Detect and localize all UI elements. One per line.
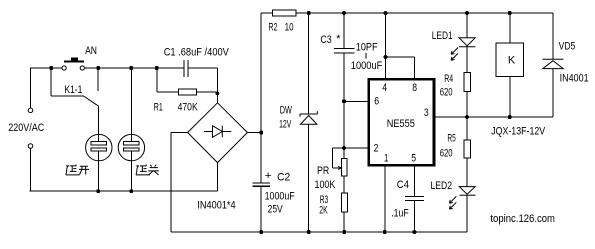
wire DC minus drop bbox=[170, 133, 172, 233]
svg-text:R2: R2 bbox=[269, 22, 278, 34]
node AN left bbox=[49, 66, 53, 70]
bridge rectifier IN4001*4 bbox=[188, 103, 248, 163]
node C3 top bbox=[342, 11, 346, 15]
node DW bottom bbox=[307, 230, 311, 234]
node lamp2 top bbox=[129, 66, 133, 70]
svg-text:R4: R4 bbox=[444, 73, 453, 85]
relay contact K1-1 bbox=[50, 68, 52, 96]
svg-text:VD5: VD5 bbox=[559, 40, 576, 52]
wire lamp1 bottom bbox=[97, 151, 99, 191]
svg-text:LED2: LED2 bbox=[431, 180, 453, 192]
node pin6 bbox=[342, 99, 346, 103]
svg-text:620: 620 bbox=[440, 87, 453, 99]
svg-text:LED1: LED1 bbox=[432, 30, 453, 42]
svg-text:C3: C3 bbox=[320, 34, 331, 46]
node pin3-R4 bbox=[465, 115, 469, 119]
svg-text:1000uF: 1000uF bbox=[351, 60, 383, 72]
node LED1 top bbox=[465, 11, 469, 15]
svg-text:1: 1 bbox=[384, 152, 388, 164]
svg-text:K: K bbox=[508, 55, 516, 67]
resistor R4 bbox=[464, 73, 471, 92]
wire C1 corner down bbox=[216, 68, 218, 103]
zener diode DW bbox=[300, 111, 317, 124]
relay coil K bbox=[509, 13, 511, 43]
node bridge top bbox=[215, 91, 219, 95]
wire pin5 drop bbox=[413, 167, 415, 197]
svg-text:IN4001: IN4001 bbox=[560, 73, 589, 85]
node R3 bottom bbox=[342, 230, 346, 234]
svg-text:DW: DW bbox=[280, 105, 293, 117]
capacitor C1 bbox=[183, 60, 185, 77]
svg-text:1000uF: 1000uF bbox=[265, 190, 295, 202]
svg-text:6: 6 bbox=[374, 96, 379, 108]
node C2 top bbox=[259, 131, 263, 135]
diode VD5 IN4001 bbox=[552, 13, 554, 59]
svg-text:620: 620 bbox=[440, 147, 453, 159]
node lamp1 rail bbox=[96, 189, 100, 193]
node C2 bottom bbox=[259, 230, 263, 234]
IC U1 NE555 body bbox=[369, 79, 434, 165]
wire bridge right vertex bbox=[247, 132, 261, 134]
wire pin4 column bbox=[385, 13, 387, 78]
wire pin1 ground bbox=[384, 167, 386, 233]
node pin4-8 tie bbox=[384, 55, 388, 59]
node pin3-K bbox=[508, 115, 512, 119]
svg-text:+: + bbox=[265, 170, 272, 182]
wire lamp2 bottom bbox=[130, 151, 132, 191]
wire pin2 bbox=[344, 147, 368, 149]
svg-text:K1-1: K1-1 bbox=[64, 84, 82, 96]
node lamp2 rail bbox=[129, 189, 133, 193]
wire bridge left vertex bbox=[171, 132, 187, 134]
LED1 bbox=[466, 13, 468, 38]
svg-text:C2: C2 bbox=[277, 172, 290, 184]
svg-text:10: 10 bbox=[285, 22, 294, 34]
wire pin8 tie bbox=[386, 56, 415, 58]
svg-text:100K: 100K bbox=[315, 179, 336, 191]
node DW top bbox=[307, 11, 311, 15]
terminal 220V top bbox=[28, 108, 33, 113]
wire pin3 output row bbox=[435, 116, 553, 118]
node C4 bottom bbox=[412, 230, 416, 234]
capacitor C4 bbox=[405, 195, 424, 197]
node K top bbox=[508, 11, 512, 15]
svg-text:NE555: NE555 bbox=[387, 118, 415, 130]
svg-text:220V/AC: 220V/AC bbox=[8, 122, 44, 134]
svg-text:.1uF: .1uF bbox=[391, 208, 409, 220]
svg-text:8: 8 bbox=[412, 82, 417, 94]
resistor R3 bbox=[341, 193, 347, 212]
terminal 220V bottom bbox=[28, 144, 33, 149]
label 延关 (delay off) bbox=[136, 165, 159, 175]
wire node to lamp2 bbox=[130, 68, 132, 142]
svg-text:JQX-13F-12V: JQX-13F-12V bbox=[491, 125, 546, 137]
svg-text:2K: 2K bbox=[319, 205, 328, 217]
svg-text:topinc.126.com: topinc.126.com bbox=[490, 213, 555, 225]
node R1 left bbox=[155, 66, 159, 70]
LED2 bbox=[450, 187, 476, 210]
svg-text:4: 4 bbox=[382, 82, 387, 94]
node pin2 bbox=[342, 146, 346, 150]
svg-text:12V: 12V bbox=[279, 119, 292, 131]
wire plus column bbox=[260, 13, 262, 183]
svg-text:*: * bbox=[336, 33, 341, 45]
svg-text:2: 2 bbox=[374, 142, 379, 154]
wire 220V hot top run bbox=[30, 67, 62, 69]
svg-text:IN4001*4: IN4001*4 bbox=[197, 200, 235, 212]
svg-text:25V: 25V bbox=[268, 204, 284, 216]
svg-text:5: 5 bbox=[411, 152, 416, 164]
capacitor C2 electrolytic bbox=[253, 182, 271, 184]
node pin1 bottom bbox=[383, 230, 387, 234]
wire DW column bbox=[308, 13, 310, 114]
potentiometer PR bbox=[333, 147, 344, 149]
svg-text:470K: 470K bbox=[178, 102, 199, 114]
wire neutral rail bbox=[30, 190, 218, 192]
wire bridge bottom to rail bbox=[217, 163, 219, 192]
svg-text:R1: R1 bbox=[154, 102, 163, 114]
label 延开 (delay on) bbox=[66, 165, 89, 175]
svg-text:C1 .68uF /400V: C1 .68uF /400V bbox=[164, 47, 230, 59]
svg-text:3: 3 bbox=[424, 107, 429, 119]
neon lamp delay-off bbox=[118, 134, 144, 160]
wire +12V rail bbox=[261, 12, 273, 14]
capacitor C3 bbox=[343, 13, 345, 49]
svg-text:C4: C4 bbox=[397, 179, 409, 191]
wire pin6 bbox=[344, 100, 368, 102]
resistor R2 bbox=[273, 10, 296, 16]
node AN right bbox=[96, 66, 100, 70]
wire 220V left drop bbox=[29, 68, 31, 108]
resistor R5 bbox=[466, 117, 468, 140]
svg-text:AN: AN bbox=[85, 45, 97, 57]
svg-text:PR: PR bbox=[317, 165, 329, 177]
svg-text:10PF: 10PF bbox=[356, 42, 378, 54]
resistor R1 bbox=[156, 68, 158, 92]
wire 220V bottom drop bbox=[29, 149, 31, 192]
svg-text:R5: R5 bbox=[447, 133, 455, 145]
node pin4/8 supply bbox=[384, 11, 388, 15]
neon lamp delay-on bbox=[86, 134, 112, 160]
wire contact to lamp1 bbox=[97, 106, 99, 141]
wire ground rail bbox=[171, 231, 467, 233]
pushbutton AN bbox=[62, 66, 66, 70]
